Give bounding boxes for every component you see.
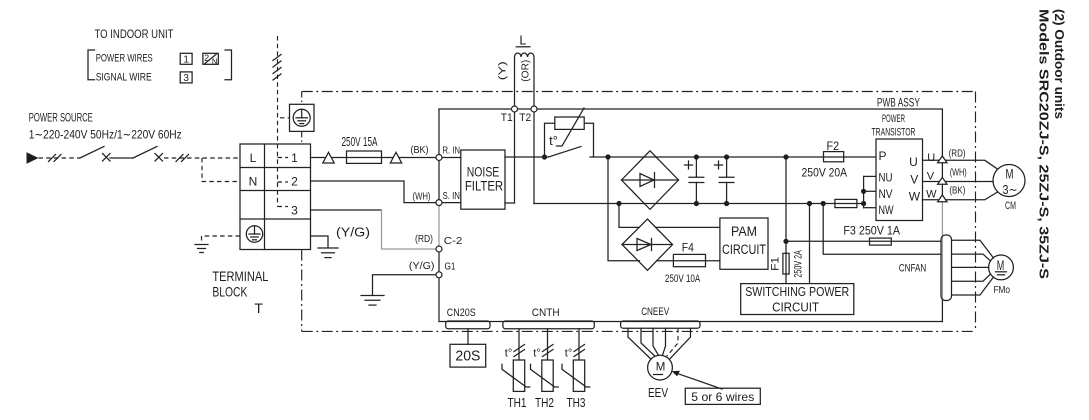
EEV wire 6 <box>670 328 691 359</box>
wire terminal2 to S.IN <box>311 181 436 203</box>
bridge rectifier 1 diamond <box>622 151 679 210</box>
EEV wire 3 <box>653 328 659 355</box>
wire terminal3 to C-2 (gray) <box>382 210 436 249</box>
F1 feed wire from top rail <box>785 157 787 284</box>
N bracket vertical <box>863 176 865 207</box>
TH1 wire hatches <box>514 345 525 357</box>
T2 riser wire <box>533 112 535 203</box>
capacitor C2 polarity + <box>715 161 723 169</box>
R line from noise filter <box>505 156 549 158</box>
switching power circuit box <box>741 284 854 315</box>
svg-text:CNFAN: CNFAN <box>899 263 927 275</box>
wire U output <box>923 160 998 169</box>
svg-text:NV: NV <box>879 187 893 201</box>
TH2 diagonal <box>531 364 559 387</box>
power wire L (dashed) segment 2 <box>164 157 240 159</box>
node NW junction <box>861 201 866 206</box>
NV stub <box>864 190 876 192</box>
svg-text:EEV: EEV <box>648 386 669 400</box>
PWB board left edge gray segment <box>438 203 440 249</box>
svg-text:(WH): (WH) <box>950 167 967 179</box>
fuse F4 body <box>673 254 705 266</box>
thermostat diagonal <box>557 108 585 146</box>
svg-text:CIRCUIT: CIRCUIT <box>722 242 766 257</box>
node C-2 <box>436 246 442 252</box>
S rail (bottom DC rail) <box>534 203 864 205</box>
svg-text:M: M <box>997 258 1005 273</box>
svg-text:(Y/G): (Y/G) <box>336 224 370 239</box>
wire between switches <box>110 157 133 159</box>
svg-text:C-2: C-2 <box>444 235 463 247</box>
wire terminal3 horizontal <box>311 209 382 211</box>
terminal mark box 3 <box>180 72 192 84</box>
protective earth terminal in block <box>246 226 262 242</box>
node R.IN <box>436 155 442 161</box>
svg-text:T: T <box>254 300 263 316</box>
CNTH connector capsule <box>503 321 594 329</box>
svg-text:T1: T1 <box>501 112 513 124</box>
note arrowhead <box>672 371 680 377</box>
svg-text:POWER WIRES: POWER WIRES <box>96 53 153 65</box>
svg-text:250V 15A: 250V 15A <box>342 135 378 149</box>
svg-text:3: 3 <box>291 204 298 218</box>
svg-text:G1: G1 <box>445 261 456 273</box>
connector triangle A <box>323 152 334 163</box>
TH2 wire hatches <box>543 345 554 357</box>
svg-text:1: 1 <box>291 151 298 165</box>
svg-text:1∼220-240V 50Hz/1∼220V 60Hz: 1∼220-240V 50Hz/1∼220V 60Hz <box>29 128 182 142</box>
bridge 1 diode <box>640 173 655 188</box>
terminal mark box 1 <box>180 53 192 65</box>
bridge 2 diode <box>637 239 652 251</box>
svg-text:(Y): (Y) <box>497 61 509 80</box>
outdoor unit boundary top (dash-dot) <box>302 91 976 93</box>
node T1 <box>512 106 518 112</box>
node rail tap SPC <box>807 201 812 206</box>
svg-text:T2: T2 <box>519 112 531 124</box>
svg-text:SWITCHING POWER: SWITCHING POWER <box>745 284 849 299</box>
switch S2 blade <box>133 147 157 159</box>
dashed earth lead into box <box>280 117 290 119</box>
legend bracket right <box>225 50 232 80</box>
PWB board right edge gray segment <box>941 202 943 300</box>
capacitor C1 polarity + <box>685 161 693 169</box>
svg-text:250V 2A: 250V 2A <box>793 250 805 278</box>
bridge 2 diode chord <box>622 244 673 246</box>
fan wire 4 <box>952 274 991 281</box>
svg-text:BLOCK: BLOCK <box>212 284 247 300</box>
PWB board right edge lower <box>941 300 943 322</box>
CNFAN connector capsule <box>941 235 952 301</box>
svg-text:(BK): (BK) <box>411 144 429 156</box>
svg-text:V: V <box>927 171 935 183</box>
outdoor unit boundary left segments (dash-dot) <box>301 92 303 332</box>
note box 5 or 6 wires <box>685 388 760 404</box>
svg-text:PWB ASSY: PWB ASSY <box>877 98 920 110</box>
switch S1 blade <box>80 147 104 159</box>
svg-text:CNEEV: CNEEV <box>641 306 669 318</box>
reactor L coil <box>515 53 535 106</box>
node F3 line tap <box>783 239 788 244</box>
outdoor unit boundary bottom (dash-dot) <box>302 330 976 332</box>
thermistor TH3 body <box>573 360 584 391</box>
thermistor TH2 wire <box>547 329 549 360</box>
svg-text:TH2: TH2 <box>535 396 554 410</box>
svg-text:F2: F2 <box>827 139 840 153</box>
node G1 <box>436 272 442 278</box>
ground 1 (beside block) <box>318 248 338 258</box>
svg-text:3: 3 <box>183 73 189 84</box>
thermistor TH2 body <box>542 360 553 391</box>
svg-text:TH3: TH3 <box>567 396 586 410</box>
svg-text:F1: F1 <box>770 257 782 271</box>
bridge 1 diode chord <box>622 179 679 181</box>
svg-text:CNTH: CNTH <box>532 307 560 319</box>
svg-text:250V 10A: 250V 10A <box>665 273 701 285</box>
power wire N branch (dashed) <box>202 158 240 182</box>
node C1 top <box>694 154 699 159</box>
outdoor unit boundary right (dash-dot) <box>975 92 977 332</box>
svg-text:Models SRC20ZJ-S, 25ZJ-S, 35ZJ: Models SRC20ZJ-S, 25ZJ-S, 35ZJ-S <box>1037 9 1052 279</box>
node S rail bridge2 tap <box>616 201 621 206</box>
svg-text:t°: t° <box>505 347 512 359</box>
PWB board left edge upper <box>438 109 440 203</box>
node t-branch left <box>542 154 547 159</box>
note arrow line <box>678 374 723 390</box>
wire hatches on power wire 2 <box>176 155 189 162</box>
capacitor C2 leads <box>726 157 728 204</box>
EEV wire 2 <box>641 328 655 356</box>
svg-text:5 or 6 wires: 5 or 6 wires <box>691 390 754 404</box>
connector triangle B <box>390 152 401 163</box>
connector triangle V <box>938 177 947 184</box>
bridge rectifier 2 diamond <box>622 219 673 270</box>
node C1 bottom <box>694 201 699 206</box>
svg-text:t°: t° <box>565 347 572 359</box>
fan wire 2 <box>952 254 991 261</box>
switch S1 contact X <box>103 154 111 162</box>
svg-text:(OR): (OR) <box>519 60 531 82</box>
fan motor FMo circle <box>989 255 1014 280</box>
svg-text:TRANSISTOR: TRANSISTOR <box>872 127 916 139</box>
wire CN20S to 20S box <box>467 329 469 345</box>
F3 line to CNFAN <box>786 240 941 242</box>
capacitor C1 leads <box>695 157 697 204</box>
svg-text:TO INDOOR UNIT: TO INDOOR UNIT <box>95 29 174 41</box>
ground (power source earth) <box>195 245 208 253</box>
svg-text:(BK): (BK) <box>949 185 965 197</box>
CN20S connector capsule <box>446 321 490 329</box>
svg-text:CN20S: CN20S <box>447 307 476 319</box>
svg-text:(WH): (WH) <box>413 191 431 203</box>
svg-text:t°: t° <box>533 347 540 359</box>
ground 2 (G1 earth) <box>361 296 384 306</box>
svg-text:2: 2 <box>204 53 209 63</box>
svg-text:(Y/G): (Y/G) <box>409 260 435 272</box>
node T2 <box>531 106 537 112</box>
block internal dashed links <box>278 144 289 207</box>
svg-text:t°: t° <box>549 133 558 148</box>
power source arrow <box>27 152 39 163</box>
label L with underline <box>516 34 530 48</box>
svg-text:N: N <box>249 175 258 189</box>
dashed earth wire to power source ground <box>202 236 241 244</box>
fuse F2 body <box>824 152 844 162</box>
compressor motor CM circle <box>993 165 1025 197</box>
shunt resistor on S rail <box>835 199 857 207</box>
fan wire 5 <box>952 277 994 295</box>
svg-text:TERMINAL: TERMINAL <box>212 268 268 284</box>
wire count hatches on indoor-unit line <box>273 55 281 81</box>
svg-text:(RD): (RD) <box>949 148 966 160</box>
EEV motor circle <box>648 355 673 380</box>
svg-text:FILTER: FILTER <box>465 179 504 194</box>
thermistor TH1 body <box>513 360 524 391</box>
svg-text:1: 1 <box>183 54 189 65</box>
svg-text:NW: NW <box>879 203 894 217</box>
wire block earth row to ground 1 <box>311 236 329 248</box>
TH1 diagonal <box>502 364 530 387</box>
node S.IN <box>436 200 442 206</box>
PWB board top edge <box>439 108 942 110</box>
wire terminal1 to fuse line <box>311 157 440 159</box>
svg-text:NOISE: NOISE <box>467 165 500 180</box>
svg-text:U: U <box>927 152 935 164</box>
fan wire 3 <box>952 266 989 268</box>
EEV motor underline <box>654 374 663 376</box>
FMo motor underlines <box>996 272 1007 275</box>
svg-text:L: L <box>250 151 257 165</box>
svg-text:R. IN: R. IN <box>443 146 461 157</box>
svg-text:CIRCUIT: CIRCUIT <box>772 300 819 315</box>
svg-text:M: M <box>656 362 666 374</box>
thermostat t deg branch <box>545 123 594 157</box>
wire S.IN stub <box>442 202 461 204</box>
terminal mark box 2/N <box>203 53 218 67</box>
node lower-bridge tap on R line <box>605 154 610 159</box>
node F1 top rail tap <box>783 154 788 159</box>
terminal block outline <box>240 144 311 250</box>
fan wire 1 <box>952 240 994 258</box>
svg-text:PAM: PAM <box>731 224 757 239</box>
signal wire to indoor unit (dashed) <box>277 36 279 144</box>
svg-text:SIGNAL WIRE: SIGNAL WIRE <box>96 72 152 84</box>
wire W output <box>923 192 998 200</box>
chassis earth box above block <box>290 104 315 131</box>
power wire L (dashed) segment 1 <box>39 157 81 159</box>
CNEEV connector capsule <box>621 321 700 328</box>
svg-text:V: V <box>910 173 918 187</box>
svg-text:W: W <box>909 190 921 204</box>
wire G1 to earth <box>373 275 436 295</box>
bridge 2 output upper to PAM <box>656 226 720 228</box>
legend bracket left <box>88 50 95 80</box>
node NV junction <box>861 189 866 194</box>
TH3 diagonal <box>562 364 590 387</box>
svg-text:FMo: FMo <box>993 284 1010 296</box>
svg-text:POWER: POWER <box>882 113 905 125</box>
20S box <box>450 344 486 367</box>
bridge 2 output lower through F4 <box>657 260 720 262</box>
feed S rail to bridge 2 <box>619 204 639 228</box>
EEV wire 5 (dashed) <box>667 328 679 356</box>
svg-text:N: N <box>212 57 218 66</box>
EEV wire 1 <box>628 328 651 359</box>
TH3 wire hatches <box>574 345 585 357</box>
thermistor TH3 wire <box>578 329 580 360</box>
svg-text:F3 250V 1A: F3 250V 1A <box>843 226 900 238</box>
NU stub <box>864 175 876 177</box>
wire S rail to CNFAN pin2 <box>823 204 941 255</box>
connector triangle W <box>938 195 947 202</box>
thermistor TH1 wire <box>518 329 520 360</box>
svg-text:F4: F4 <box>682 241 694 255</box>
node C2 top <box>724 154 729 159</box>
svg-text:U: U <box>909 155 918 169</box>
svg-text:W: W <box>926 188 937 200</box>
svg-text:CM: CM <box>1005 200 1016 212</box>
EEV wire 4 <box>663 328 666 355</box>
PAM circuit box <box>720 218 768 269</box>
svg-text:L: L <box>519 34 526 48</box>
svg-text:POWER SOURCE: POWER SOURCE <box>29 111 93 125</box>
svg-text:P: P <box>879 149 887 163</box>
node C2 bottom <box>724 201 729 206</box>
svg-text:(2) Outdoor units: (2) Outdoor units <box>1052 9 1067 119</box>
wire R.IN stub <box>442 157 461 159</box>
svg-text:2: 2 <box>291 175 298 189</box>
node rail tap CNFAN <box>821 201 826 206</box>
NW stub <box>864 207 876 209</box>
wire V output <box>923 181 994 183</box>
svg-text:(RD): (RD) <box>415 233 433 245</box>
noise filter S output stub to T1 <box>505 202 515 204</box>
wire S rail to switching power circuit <box>809 204 811 284</box>
PWB board bottom edge <box>439 321 942 323</box>
power transistor box <box>876 139 923 221</box>
noise filter box <box>461 150 505 209</box>
wire hatches on power wire <box>49 155 62 162</box>
feed R line to bridge 2 <box>608 157 640 261</box>
svg-text:TH1: TH1 <box>508 396 527 410</box>
thermostat body <box>555 117 584 129</box>
svg-text:S. IN: S. IN <box>443 191 461 202</box>
svg-text:20S: 20S <box>455 349 480 365</box>
fuse 250V 15A body <box>347 151 382 163</box>
svg-text:250V 20A: 250V 20A <box>802 166 848 180</box>
PWB board left edge lower <box>438 249 440 322</box>
svg-text:3∼: 3∼ <box>1003 182 1018 197</box>
svg-text:NU: NU <box>879 171 893 185</box>
PWB board right edge upper <box>941 109 943 202</box>
switch S2 contact X <box>155 154 163 162</box>
fuse F1 body (vertical) <box>783 253 789 274</box>
svg-text:M: M <box>1006 166 1014 182</box>
connector triangle U <box>938 156 947 163</box>
capacitor C1 plates <box>689 177 704 182</box>
capacitor C2 plates <box>719 177 734 182</box>
R line after switch (top DC rail) <box>590 156 876 158</box>
T1 riser wire <box>514 112 516 203</box>
fuse F3 body <box>870 238 892 245</box>
thermal switch blade <box>549 147 582 158</box>
